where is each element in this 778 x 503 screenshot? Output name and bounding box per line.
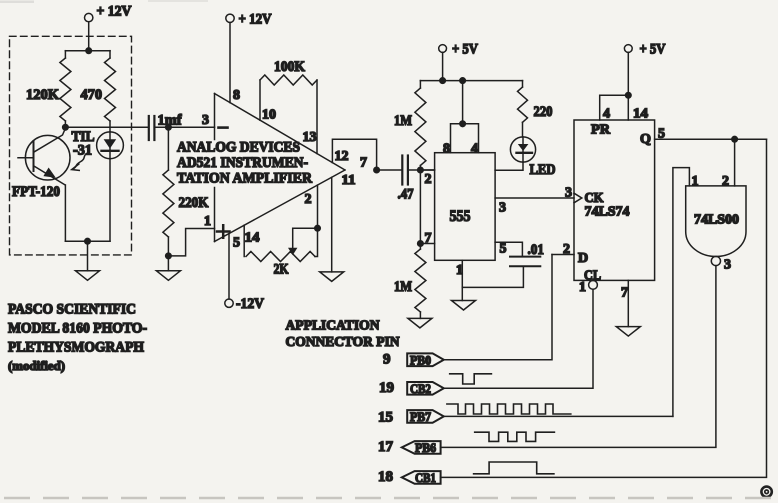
svg-text:.47: .47 bbox=[398, 187, 414, 203]
wire: pins 8/4 tie loop bbox=[451, 81, 479, 153]
svg-text:ANALOG DEVICES: ANALOG DEVICES bbox=[177, 140, 300, 156]
svg-text:19: 19 bbox=[379, 380, 394, 396]
node: bottom junction dot bbox=[85, 238, 91, 244]
svg-text:MODEL 8160 PHOTO-: MODEL 8160 PHOTO- bbox=[8, 321, 147, 337]
dashed enclosure (PASCO module) bbox=[10, 36, 132, 255]
wire: LED cathode down bbox=[109, 159, 111, 242]
pin row 17 PB6 bbox=[378, 439, 441, 455]
node: supply junction dot bbox=[86, 48, 92, 54]
capacitor C 1mf bbox=[149, 113, 183, 141]
svg-text:8: 8 bbox=[233, 88, 240, 103]
node: pot wiper junction bbox=[315, 225, 321, 231]
wire: Q output bbox=[655, 138, 767, 140]
caption PASCO bbox=[8, 302, 147, 374]
resistor R 1M (upper) bbox=[394, 81, 426, 170]
wire: pin 7 bbox=[420, 243, 434, 245]
svg-text:9: 9 bbox=[383, 352, 391, 368]
svg-text:PASCO SCIENTIFIC: PASCO SCIENTIFIC bbox=[8, 302, 136, 318]
+5V supply terminal (74LS74) bbox=[624, 42, 665, 58]
svg-text:1M: 1M bbox=[394, 279, 412, 295]
svg-text:+ 5V: + 5V bbox=[640, 42, 666, 58]
wire: pin 8 bbox=[229, 23, 231, 103]
wire: D input bbox=[552, 254, 574, 256]
waveform: CB1 gate pulse bbox=[474, 462, 554, 474]
pin 3 label and minus bbox=[202, 113, 228, 128]
svg-text:D: D bbox=[578, 251, 588, 266]
wire: cap to 555 trigger bbox=[408, 169, 435, 171]
resistor R 120K bbox=[26, 51, 71, 128]
resistor R 470 bbox=[81, 51, 116, 132]
pin row 9 PB0 bbox=[383, 352, 444, 368]
wire: LED to 555 bbox=[495, 162, 523, 170]
IC U 74LS74 flip-flop bbox=[574, 120, 655, 280]
svg-text:10: 10 bbox=[262, 108, 276, 123]
svg-text:7: 7 bbox=[621, 286, 628, 301]
wire: pin 1 return path bbox=[168, 229, 214, 256]
wire: .01 cap to pin1 ground run bbox=[462, 266, 523, 287]
svg-text:120K: 120K bbox=[26, 87, 59, 103]
wire: pin 5 to .01 cap bbox=[495, 242, 522, 256]
LED indicator bbox=[510, 137, 555, 178]
svg-text:7: 7 bbox=[360, 156, 367, 171]
svg-text:LED: LED bbox=[530, 162, 556, 178]
op-amp U AD521 triangle bbox=[215, 94, 346, 242]
wire: +5V down to rail bbox=[442, 52, 444, 80]
svg-text:PB7: PB7 bbox=[410, 410, 431, 424]
node: 120K bottom junction bbox=[63, 125, 69, 131]
node: input junction dot bbox=[166, 125, 172, 131]
pin row 15 PB7 bbox=[378, 410, 444, 426]
wire: +5V rail bbox=[420, 80, 522, 82]
svg-text:3: 3 bbox=[724, 258, 731, 273]
-12V supply terminal (pin 5) bbox=[225, 234, 264, 312]
wire: pin 12 sense loop bbox=[332, 139, 376, 170]
wire: emitter down bbox=[64, 185, 66, 241]
wire: bottom tie bar bbox=[65, 240, 110, 242]
svg-text:PB6: PB6 bbox=[415, 441, 436, 455]
wire: PB6 to NAND out bbox=[441, 266, 716, 448]
svg-text:3: 3 bbox=[499, 201, 506, 216]
caption APPLICATION CONNECTOR PIN bbox=[286, 319, 400, 351]
node: +5V feed dot bbox=[440, 78, 446, 84]
svg-text:2: 2 bbox=[722, 174, 729, 189]
wire: PB7 to NAND in1 bbox=[444, 415, 673, 417]
svg-text:+ 12V: + 12V bbox=[239, 12, 272, 28]
potentiometer R 2K (offset trim) bbox=[244, 225, 317, 277]
svg-text:5: 5 bbox=[233, 236, 240, 251]
+12V supply terminal (left) bbox=[85, 4, 132, 22]
svg-text:1M: 1M bbox=[394, 113, 412, 129]
transistor Q FPT-120 (phototransistor) bbox=[12, 128, 70, 200]
wire: +12V terminal down to resistor rail bbox=[88, 22, 90, 51]
svg-text:FPT-120: FPT-120 bbox=[12, 184, 60, 200]
pin row 18 CB1 bbox=[378, 469, 441, 485]
svg-text:11: 11 bbox=[342, 173, 356, 188]
wire: output to .47 cap bbox=[377, 169, 402, 171]
svg-text:220: 220 bbox=[534, 104, 553, 120]
svg-text:CB2: CB2 bbox=[410, 382, 431, 396]
scan artifact band bbox=[4, 497, 774, 499]
svg-text:100K: 100K bbox=[274, 59, 305, 75]
svg-text:18: 18 bbox=[378, 469, 393, 485]
svg-text:.01: .01 bbox=[528, 242, 545, 258]
wire: CB1 to Q bbox=[441, 139, 767, 477]
svg-text:CONNECTOR PIN: CONNECTOR PIN bbox=[286, 335, 400, 350]
svg-text:-12V: -12V bbox=[236, 296, 264, 312]
resistor R 1M (lower) bbox=[394, 244, 426, 319]
waveform: PB6 gated clock bbox=[475, 432, 555, 441]
svg-text:1: 1 bbox=[692, 174, 699, 189]
svg-text:8: 8 bbox=[443, 142, 450, 157]
svg-text:2: 2 bbox=[425, 172, 432, 187]
wire: NAND input 2 from Q bbox=[734, 139, 736, 186]
pin 1 label and plus bbox=[204, 214, 230, 238]
wire: pin 2 bbox=[317, 185, 319, 228]
ground (PASCO module) bbox=[76, 271, 100, 281]
ground (1M lower) bbox=[408, 318, 432, 328]
node: rail branch dot bbox=[460, 78, 466, 84]
wire: junction to coupling capacitor bbox=[65, 126, 148, 128]
waveform: CB2 pulse bbox=[450, 374, 492, 384]
node: output dot bbox=[374, 167, 380, 173]
svg-text:7: 7 bbox=[425, 231, 432, 246]
LED D TIL-31 (emitter diode in circle) bbox=[97, 132, 124, 159]
svg-text:74LS00: 74LS00 bbox=[694, 213, 739, 228]
svg-text:(modified): (modified) bbox=[8, 358, 65, 373]
svg-text:PR: PR bbox=[591, 123, 611, 138]
copyright mark bbox=[761, 487, 771, 497]
svg-text:5: 5 bbox=[658, 127, 665, 142]
node: Q branch dot bbox=[732, 136, 738, 142]
IC U 555 timer bbox=[435, 153, 496, 261]
svg-text:220K: 220K bbox=[179, 195, 209, 211]
label ANALOG DEVICES AD521 bbox=[177, 140, 312, 187]
wire: cap to inverting input bbox=[154, 126, 214, 128]
svg-text:4: 4 bbox=[471, 142, 478, 157]
ground (input bias) bbox=[167, 256, 169, 271]
+12V supply terminal (op-amp pin 8) bbox=[226, 12, 272, 28]
svg-text:APPLICATION: APPLICATION bbox=[286, 319, 380, 334]
svg-text:+ 5V: + 5V bbox=[452, 42, 478, 58]
svg-text:TATION AMPLIFIER: TATION AMPLIFIER bbox=[177, 171, 312, 187]
svg-text:3: 3 bbox=[565, 186, 572, 201]
wire: pin 7 to ground bbox=[627, 280, 629, 326]
+5V supply terminal (555) bbox=[439, 42, 478, 58]
ground (74LS74 pin7) bbox=[616, 327, 640, 337]
svg-text:14: 14 bbox=[245, 231, 260, 246]
svg-text:CB1: CB1 bbox=[415, 471, 436, 485]
wire: pin 2 trigger bbox=[420, 169, 434, 171]
capacitor C .47 bbox=[398, 156, 414, 203]
svg-text:470: 470 bbox=[81, 87, 103, 103]
svg-text:3: 3 bbox=[202, 113, 209, 128]
wire: +5V to pins 4/14 bbox=[600, 52, 631, 120]
wire: junction to ground bbox=[87, 241, 89, 271]
svg-text:Q: Q bbox=[640, 132, 651, 147]
ground (op-amp pin 11) bbox=[320, 177, 344, 281]
wire: NAND input 1 from PB7 bbox=[673, 168, 690, 417]
svg-text:12: 12 bbox=[335, 149, 349, 164]
svg-text:+ 12V: + 12V bbox=[97, 4, 132, 20]
svg-text:2: 2 bbox=[563, 242, 570, 257]
svg-text:2: 2 bbox=[305, 192, 312, 207]
wire: PB0 to D bbox=[444, 255, 552, 360]
svg-text:1: 1 bbox=[579, 280, 586, 295]
svg-text:5: 5 bbox=[500, 242, 507, 257]
bubble: NAND output bbox=[711, 256, 720, 265]
svg-text:2K: 2K bbox=[274, 262, 289, 278]
svg-text:PLETHYSMOGRAPH: PLETHYSMOGRAPH bbox=[8, 340, 144, 356]
svg-text:PB0: PB0 bbox=[410, 353, 431, 367]
svg-text:1: 1 bbox=[456, 263, 463, 278]
resistor R 220 bbox=[518, 81, 553, 137]
capacitor C .01 bbox=[510, 242, 544, 266]
svg-text:13: 13 bbox=[303, 130, 317, 145]
wire: 555 output pin 3 to CK bbox=[495, 197, 574, 199]
node: trigger junction dot bbox=[418, 167, 424, 173]
waveform: PB7 clock bbox=[447, 404, 571, 414]
resistor R 220K bbox=[163, 127, 209, 256]
svg-text:AD521 INSTRUMEN-: AD521 INSTRUMEN- bbox=[177, 155, 308, 171]
label TIL-31 with pointer squiggle bbox=[72, 129, 95, 170]
svg-text:-31: -31 bbox=[73, 143, 92, 159]
svg-text:555: 555 bbox=[450, 208, 471, 225]
wire: 2-7 tie bbox=[419, 170, 421, 244]
node: 220K bottom dot bbox=[166, 253, 172, 259]
resistor R 100K (gain set) bbox=[260, 59, 317, 154]
pin row 19 CB2 bbox=[379, 380, 444, 396]
ground (555 pin1) bbox=[452, 301, 476, 311]
svg-text:74LS74: 74LS74 bbox=[585, 205, 630, 220]
gate U 74LS00 NAND bbox=[686, 186, 746, 257]
svg-text:1: 1 bbox=[204, 214, 211, 229]
node: pin7 junction dot bbox=[418, 241, 424, 247]
wire: rail across resistor tops bbox=[65, 50, 110, 52]
wire: pin 1 bbox=[461, 260, 463, 300]
wire: CB2 to CL bbox=[444, 289, 593, 388]
bubble: CL pin bbox=[589, 281, 598, 290]
svg-text:15: 15 bbox=[378, 410, 393, 426]
svg-text:17: 17 bbox=[378, 439, 394, 455]
